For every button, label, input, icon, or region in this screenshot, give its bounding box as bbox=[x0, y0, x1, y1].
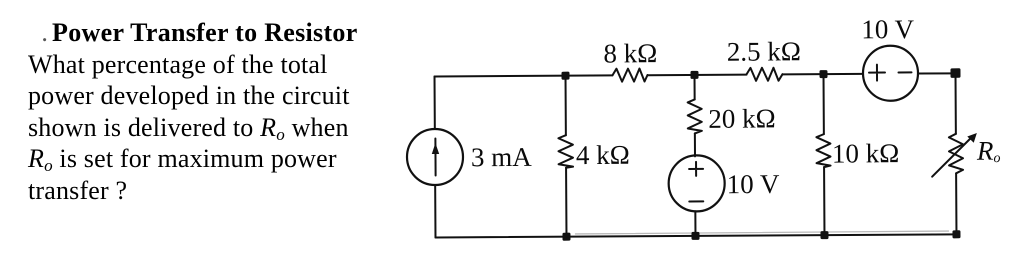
wire top between 2.5k and node C bbox=[783, 73, 863, 75]
current source arrowhead bbox=[432, 143, 439, 154]
wire top left horizontal bbox=[435, 75, 613, 76]
wire bottom rail scan ghost bbox=[575, 231, 948, 234]
node E dot bottom of 4k bbox=[562, 233, 570, 241]
plus sign of V2 bbox=[869, 65, 885, 81]
svg-text:8 kΩ: 8 kΩ bbox=[603, 38, 657, 68]
node H dot bottom right bbox=[952, 230, 960, 238]
wire 4k branch bottom bbox=[565, 168, 567, 237]
minus sign of V2 bbox=[898, 71, 911, 73]
svg-text:Ro: Ro bbox=[976, 136, 1001, 167]
wire from V2 to node D bbox=[918, 72, 955, 74]
current source I1 circle bbox=[407, 129, 463, 185]
wire Ro branch top bbox=[954, 73, 956, 133]
node F dot bottom of V1 bbox=[691, 232, 699, 240]
problem text bbox=[28, 17, 448, 206]
node A dot top of 4k bbox=[561, 72, 569, 80]
plus sign of V1 bbox=[689, 162, 703, 176]
svg-text:2.5 kΩ: 2.5 kΩ bbox=[727, 36, 801, 66]
node B dot top of 20k bbox=[690, 71, 698, 79]
svg-text:10 kΩ: 10 kΩ bbox=[832, 138, 900, 168]
svg-text:10 V: 10 V bbox=[861, 14, 914, 44]
resistor 4k zigzag bbox=[558, 135, 573, 168]
resistor R 8k zigzag bbox=[612, 69, 647, 82]
resistor 2.5k zigzag bbox=[746, 68, 782, 81]
Ro variable arrowhead bbox=[967, 133, 977, 143]
wire left branch vertical top bbox=[434, 77, 436, 129]
current source arrow line bbox=[434, 138, 436, 175]
node G dot bottom of 10k bbox=[820, 231, 828, 239]
wire 10k branch bottom bbox=[823, 167, 825, 235]
wire left branch vertical bottom bbox=[434, 185, 436, 237]
wire 20k to V1 bbox=[694, 133, 696, 156]
wire bottom rail bbox=[435, 234, 956, 237]
wire 10k branch top bbox=[823, 74, 825, 134]
resistor Ro zigzag bbox=[949, 134, 963, 174]
node C dot top of 10k bbox=[819, 70, 827, 78]
wire top between 8k and node B bbox=[648, 74, 747, 77]
wire Ro branch bottom bbox=[955, 173, 957, 234]
svg-text:10 V: 10 V bbox=[727, 169, 780, 199]
svg-text:3 mA: 3 mA bbox=[471, 142, 532, 172]
wire 4k branch top bbox=[565, 76, 567, 135]
wire V1 to bottom rail bbox=[694, 211, 696, 235]
node D dot top right bbox=[950, 68, 960, 78]
svg-text:4 kΩ: 4 kΩ bbox=[576, 140, 630, 170]
minus sign of V1 bbox=[689, 200, 703, 202]
svg-text:20 kΩ: 20 kΩ bbox=[708, 103, 776, 133]
resistor 20k zigzag bbox=[688, 99, 702, 133]
wire 20k branch top bbox=[694, 75, 696, 99]
resistor 10k zigzag bbox=[816, 134, 830, 167]
voltage source V1 10V circle bbox=[668, 155, 724, 211]
Ro variable arrow shaft bbox=[932, 137, 972, 177]
voltage source V2 10V circle bbox=[863, 46, 918, 101]
